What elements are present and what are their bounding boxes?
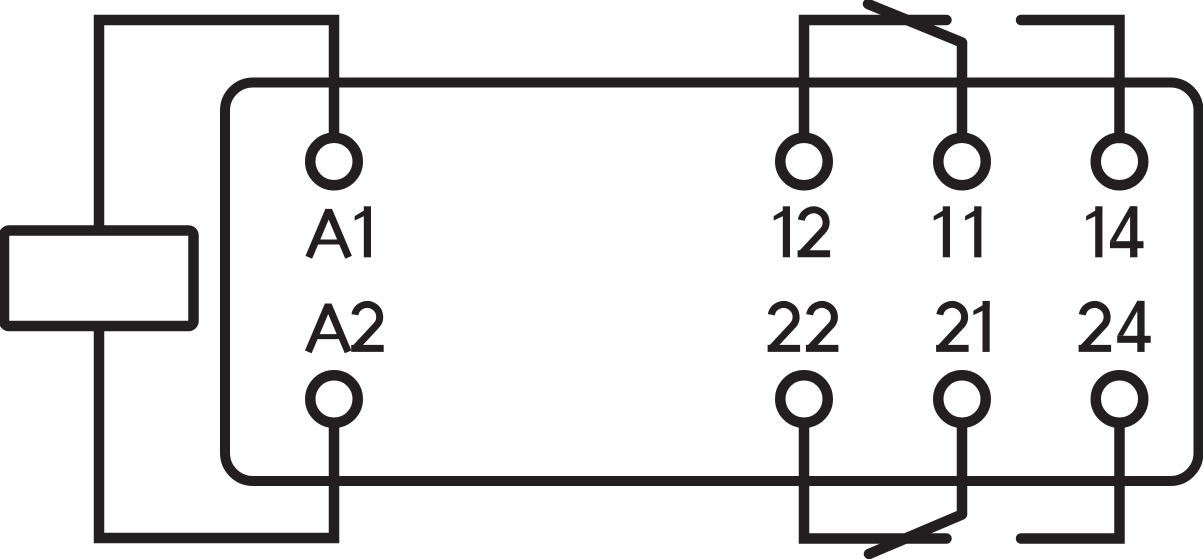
coil K1: [4, 231, 194, 327]
terminal circle 11: [938, 138, 986, 186]
pin label 22: [768, 304, 839, 348]
wire 11 common (top): [957, 43, 968, 139]
pin label 12: [774, 206, 830, 257]
pin label 14: [1086, 206, 1143, 257]
pin label 21: [936, 301, 990, 352]
wire 22 NC contact arm (bottom): [804, 423, 947, 539]
wire 14 NO contact (top): [1021, 20, 1120, 138]
terminal circle 22: [780, 375, 828, 423]
relay body outline: [225, 83, 1199, 482]
contact blade top pole (11 to 12 closed): [868, 4, 962, 43]
wire 12 NC contact arm (top): [804, 20, 947, 136]
pin label A2: [308, 304, 383, 351]
pin label A1: [309, 206, 371, 257]
terminal circle 21: [938, 375, 986, 423]
contact blade bottom pole (21 to 22 closed): [869, 515, 962, 555]
wire A1 terminal to coil top: [99, 20, 334, 231]
terminal circle 14: [1096, 138, 1144, 186]
pin label 11: [934, 206, 982, 257]
wire 24 NO contact (bottom): [1021, 423, 1120, 539]
wire 21 common (bottom): [957, 423, 968, 515]
wire coil bottom to A2 terminal: [99, 326, 334, 538]
terminal circle A1: [310, 138, 358, 186]
pin label 24: [1079, 301, 1151, 352]
terminal circle 12: [780, 138, 828, 186]
terminal circle A2: [310, 375, 358, 423]
terminal circle 24: [1096, 375, 1144, 423]
